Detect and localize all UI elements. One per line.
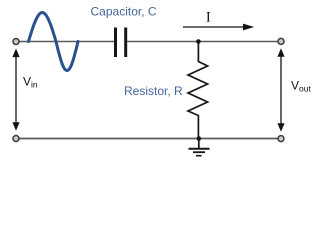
AC source sine wave <box>29 13 79 71</box>
capacitor C1 plates <box>114 28 117 58</box>
Vin measurement arrow <box>12 49 19 131</box>
node bottom junction <box>197 136 202 141</box>
ground <box>189 139 210 156</box>
Vout measurement arrow <box>277 48 284 132</box>
resistor R1 <box>188 42 208 139</box>
current arrow I <box>183 26 244 28</box>
wire top (right segment, capacitor to right terminal) <box>127 41 278 43</box>
terminal top-right <box>278 38 284 44</box>
node top junction <box>196 39 201 44</box>
wire bottom <box>19 138 278 140</box>
svg-text:I: I <box>206 10 211 26</box>
terminal bottom-right <box>278 136 284 142</box>
svg-text:Resistor, R: Resistor, R <box>124 84 183 98</box>
wire top (left segment, terminal to capacitor) <box>19 41 114 43</box>
terminal top-left <box>13 39 19 45</box>
terminal bottom-left <box>13 136 19 142</box>
svg-text:Capacitor, C: Capacitor, C <box>91 4 157 18</box>
